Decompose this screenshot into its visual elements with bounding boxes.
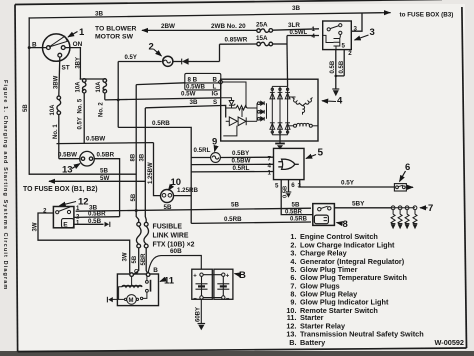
svg-text:+: + — [226, 274, 230, 280]
svg-text:+: + — [193, 274, 197, 280]
wire 0.5WL to relay pin 4 — [287, 35, 319, 37]
svg-text:0.5BW: 0.5BW — [86, 136, 105, 143]
svg-text:3W: 3W — [123, 252, 129, 261]
svg-text:10A: 10A — [75, 81, 81, 93]
glow plug timer U2 (component 5) — [274, 148, 305, 179]
battery polarity marks — [193, 274, 230, 302]
wire 3BY branch down to fuse rail — [79, 48, 81, 79]
svg-text:0.5RL: 0.5RL — [233, 165, 250, 172]
relay 12 pin labels — [43, 206, 80, 227]
svg-text:0.5BW: 0.5BW — [232, 157, 251, 164]
relay 3 pin numbers — [312, 26, 358, 58]
svg-text:5B: 5B — [231, 202, 239, 209]
svg-text:to FUSE BOX (B3): to FUSE BOX (B3) — [400, 12, 454, 19]
wire 0.5B relay 12 pin 1 to ground — [74, 223, 104, 225]
wire 0.5BR relay 12 pin 2 — [74, 216, 120, 219]
svg-text:1: 1 — [268, 170, 272, 177]
svg-text:5: 5 — [318, 148, 324, 159]
svg-text:TO FUSE BOX (B1, B2): TO FUSE BOX (B1, B2) — [23, 186, 98, 193]
svg-text:25A: 25A — [256, 22, 268, 29]
wire 0.5BR from switch 13 — [94, 159, 119, 217]
fuse F25 25A — [257, 29, 273, 33]
svg-text:M: M — [129, 298, 134, 304]
svg-text:IG: IG — [212, 91, 219, 98]
svg-text:5: 5 — [275, 183, 279, 190]
svg-text:0.5BR: 0.5BR — [88, 211, 106, 218]
stator windings — [288, 97, 313, 115]
node B pin diamond — [218, 80, 223, 85]
wire left 5B vertical bus — [28, 18, 30, 174]
wire 0.85WR riser — [219, 44, 221, 61]
zener diode — [229, 101, 234, 105]
interior L wire — [223, 126, 237, 136]
wire relay pin3 up to 3B bus — [351, 13, 362, 31]
svg-text:2BW: 2BW — [161, 23, 175, 30]
wire 0.5BW to timer pin 4 — [191, 163, 273, 165]
ground relay 12 — [105, 222, 110, 227]
svg-text:B: B — [213, 77, 218, 84]
svg-text:TO BLOWER: TO BLOWER — [95, 26, 137, 33]
field coil with brushes — [288, 123, 318, 127]
wire 0.5BW into switch 13 — [59, 158, 80, 160]
fuse No.1 10A — [57, 96, 61, 159]
svg-text:5W: 5W — [100, 175, 109, 182]
starter relay K2 (component 12) — [53, 207, 74, 228]
connector pin labels — [181, 77, 218, 107]
battery cells — [196, 284, 230, 289]
wire 0.5RB bottom bus — [191, 222, 311, 223]
transmission neutral safety switch S2 (component 13) — [80, 151, 95, 166]
svg-text:3B: 3B — [292, 5, 301, 12]
wire 0.5B relay grounds — [335, 50, 345, 89]
svg-text:No. 5: No. 5 — [78, 98, 84, 113]
svg-text:0.5Y: 0.5Y — [125, 55, 137, 61]
svg-text:B: B — [153, 267, 158, 274]
svg-text:0.5BR: 0.5BR — [285, 210, 303, 216]
wire 0.5WL drop into bridge — [286, 44, 289, 86]
glow plug temperature switch S3 (component 6) — [394, 184, 406, 191]
wire 3LR fuse 25A to relay pin 1 — [273, 29, 319, 30]
generator / integral regulator U1 (component 4) — [221, 79, 318, 141]
svg-text:3LR: 3LR — [288, 22, 300, 29]
wire 3W relay 12 to starter — [38, 213, 130, 273]
low charge indicator light L1 (component 2) — [163, 56, 173, 66]
starter M1 (component 11) — [117, 274, 158, 306]
svg-text:60B: 60B — [170, 248, 182, 255]
node junction at B wire — [28, 46, 31, 49]
node 5B junction dots — [135, 209, 138, 212]
svg-text:No. 1: No. 1 — [53, 124, 59, 139]
svg-text:0.5BW: 0.5BW — [58, 151, 77, 158]
legend list — [286, 232, 464, 347]
svg-text:5BY: 5BY — [352, 201, 365, 208]
svg-text:7: 7 — [428, 203, 433, 214]
svg-text:8 B: 8 B — [188, 77, 198, 84]
inner rail from B pin to regulator — [222, 82, 246, 108]
wire ON terminal to x118 — [65, 47, 80, 49]
trio diode a — [258, 101, 265, 105]
wire 0.5RL into lamp 9 — [191, 157, 210, 159]
svg-text:10A: 10A — [96, 81, 102, 93]
wire timer pin 6 to ground — [288, 180, 290, 192]
glow plug indicator light L2 (component 9) — [211, 153, 221, 163]
svg-text:60BY: 60BY — [196, 307, 202, 322]
starter internals — [113, 276, 151, 304]
svg-text:0.5Y: 0.5Y — [78, 117, 84, 129]
wire 8B vertical bus — [135, 85, 137, 211]
wire 0.85WR to fuse 15A — [220, 43, 257, 45]
svg-text:2: 2 — [149, 42, 154, 53]
fuse F15 15A — [257, 42, 273, 46]
svg-text:10A: 10A — [50, 104, 56, 116]
svg-text:3B: 3B — [140, 153, 146, 161]
svg-text:9: 9 — [212, 137, 217, 148]
ground under generator — [275, 144, 285, 150]
svg-text:Battery: Battery — [300, 338, 326, 347]
svg-text:13: 13 — [62, 165, 73, 176]
svg-text:3BY: 3BY — [76, 57, 82, 69]
wire 3B top bus to fuse box B3 — [29, 13, 390, 18]
wire 0.5Y to charge lamp — [118, 61, 162, 63]
svg-text:4: 4 — [312, 33, 316, 40]
trio diode c — [258, 117, 265, 121]
trio diode b — [258, 110, 265, 114]
svg-text:0.5Y: 0.5Y — [341, 179, 355, 186]
glow plug relay K3 (component 8) — [313, 204, 335, 226]
wire fuse rail — [80, 78, 104, 80]
svg-text:MOTOR SW: MOTOR SW — [95, 34, 134, 41]
wire 0.5BY lamp 9 to timer pin 7 — [220, 156, 273, 158]
svg-text:ST: ST — [62, 65, 70, 72]
bottom scan bar — [0, 351, 474, 356]
svg-text:1: 1 — [79, 27, 85, 38]
wire B terminal to left bus — [29, 47, 46, 49]
generator internals — [221, 82, 267, 136]
svg-text:0.5RB: 0.5RB — [224, 216, 242, 223]
wire 8B row to vertical — [136, 83, 184, 85]
resistor — [226, 106, 258, 111]
wire out of temp switch — [406, 186, 413, 188]
svg-text:8: 8 — [343, 219, 348, 230]
svg-text:3W: 3W — [32, 222, 38, 231]
wire x118 vertical (ON feed down) — [117, 62, 119, 128]
fusible link FTX 1 — [133, 211, 141, 276]
wire 60B starter B to battery — [148, 255, 201, 272]
ground under relay 3 — [332, 89, 339, 96]
svg-text:0.5WB: 0.5WB — [186, 84, 205, 91]
wire 2WB No.20 to blower motor switch — [142, 29, 257, 31]
svg-text:No. 2: No. 2 — [98, 102, 104, 117]
svg-text:0.5W: 0.5W — [181, 91, 196, 98]
svg-text:15A: 15A — [256, 35, 268, 42]
wire 5B to fuse box B1 B2 — [29, 173, 136, 175]
glow plugs (component 7) — [391, 206, 417, 210]
wire bridge center tap to ground — [279, 135, 281, 144]
svg-text:1.25RB: 1.25RB — [177, 187, 199, 194]
terminal labels B ON ST — [32, 41, 83, 72]
svg-text:Figure 1. Charging and Startin: Figure 1. Charging and Starting Systems … — [2, 80, 8, 290]
battery B — [192, 269, 233, 299]
battery terminals and link wires — [202, 275, 224, 298]
timer pin numbers — [268, 155, 302, 189]
svg-text:W-00592: W-00592 — [435, 338, 464, 347]
wire 1.25BW vertical to remote starter switch — [154, 143, 161, 196]
wire 0.5RB upper run — [118, 127, 191, 223]
svg-text:3B: 3B — [190, 99, 198, 106]
svg-text:3BW: 3BW — [53, 75, 59, 89]
S row stub to zener — [221, 98, 232, 101]
svg-text:1.25BW: 1.25BW — [148, 162, 154, 184]
svg-text:11: 11 — [164, 276, 175, 287]
fuse No.2 10A — [103, 79, 107, 100]
engine control switch S1 (component 1) — [43, 34, 70, 61]
svg-text:2WB No. 20: 2WB No. 20 — [211, 23, 246, 30]
transistor / thyristor pair — [229, 117, 237, 126]
svg-text:5B: 5B — [292, 201, 300, 208]
svg-text:LINK WIRE: LINK WIRE — [153, 233, 189, 240]
svg-text:12: 12 — [78, 197, 89, 208]
charge relay K1 (component 3) — [323, 21, 352, 50]
svg-text:L: L — [213, 84, 217, 91]
svg-text:5B: 5B — [164, 204, 172, 211]
trio diode rails — [256, 103, 258, 121]
wire 60BY battery to ground — [200, 299, 202, 323]
svg-text:4: 4 — [268, 162, 272, 169]
wire 0.5Y timer pin 3 to temp switch — [300, 180, 395, 187]
svg-text:5B: 5B — [131, 193, 137, 201]
svg-text:8B: 8B — [131, 153, 137, 161]
svg-text:1: 1 — [312, 26, 316, 33]
wire 1.25RB from switch 10 — [174, 195, 192, 197]
ground starter (left pointing) — [108, 297, 113, 302]
wire timer pin 5 to glow plug relay — [281, 180, 313, 215]
svg-text:5BR: 5BR — [141, 253, 147, 266]
svg-text:3: 3 — [370, 27, 375, 38]
svg-text:5: 5 — [342, 43, 346, 50]
svg-text:4: 4 — [337, 96, 343, 107]
wire field sense into generator — [145, 105, 225, 117]
svg-text:0.85WR: 0.85WR — [225, 37, 248, 44]
bridge diode bottom row — [270, 123, 290, 133]
diode D1 after lamp — [172, 59, 219, 65]
grounds under glow plugs — [391, 225, 418, 230]
svg-text:ON: ON — [73, 41, 83, 48]
svg-text:0.5WL: 0.5WL — [290, 30, 308, 36]
svg-text:C: C — [134, 269, 139, 276]
regulator connector block rows B L IG S — [185, 73, 221, 90]
glow plug heater elements — [391, 210, 417, 224]
bridge diode top row — [270, 88, 290, 99]
fuse No.5 10A — [82, 79, 86, 144]
link resistor to transistor — [241, 108, 243, 117]
node labels on 3B bus — [95, 5, 453, 19]
wire 3B vertical from S row — [144, 108, 147, 222]
starter terminals C and B — [130, 273, 134, 277]
wire 3BW from ST to fuse No.1 — [59, 57, 60, 96]
svg-text:E: E — [63, 221, 68, 228]
svg-text:2: 2 — [348, 50, 352, 57]
svg-text:FUSIBLE: FUSIBLE — [153, 224, 183, 231]
svg-text:0.5BR: 0.5BR — [97, 151, 115, 158]
svg-text:0.5B: 0.5B — [88, 218, 102, 225]
wire 0.5BW fuse No.1 run — [57, 143, 154, 144]
wire 5B bottom bus — [76, 208, 311, 211]
wire 3B from fuse No.2 to S pin of regulator connector — [105, 98, 222, 100]
svg-text:B.: B. — [289, 338, 296, 347]
svg-text:0.5RB: 0.5RB — [290, 217, 308, 223]
wire 5BY relay 8 to glow plugs — [334, 207, 391, 209]
svg-text:5B: 5B — [100, 168, 108, 175]
node junction dot — [117, 99, 120, 102]
svg-text:0.5RB: 0.5RB — [152, 120, 170, 127]
svg-text:3B: 3B — [95, 11, 104, 18]
remote starter switch S4 (component 10) — [161, 190, 174, 203]
svg-text:0.5B: 0.5B — [339, 60, 345, 73]
svg-text:0.5BY: 0.5BY — [232, 150, 250, 157]
svg-text:B: B — [239, 270, 246, 281]
rectifier bridge rails — [272, 86, 287, 134]
svg-text:6: 6 — [291, 182, 295, 189]
svg-text:7: 7 — [268, 155, 272, 162]
ground timer pin 6 — [286, 192, 292, 198]
wire 5W arrow to fuse box — [49, 180, 145, 182]
timer gate symbol — [278, 159, 299, 169]
wire 0.5RL to timer pin 1 — [191, 171, 273, 173]
svg-text:0.5RL: 0.5RL — [194, 147, 211, 154]
svg-text:0.5B: 0.5B — [330, 60, 336, 73]
ground battery — [198, 324, 206, 331]
fusible link FTX 2 — [144, 222, 149, 274]
svg-text:5B: 5B — [132, 255, 138, 263]
label 1 with arrow — [68, 27, 85, 38]
wire 0.5WL fuse 15A to junction — [273, 43, 287, 45]
svg-text:5B: 5B — [23, 104, 29, 112]
